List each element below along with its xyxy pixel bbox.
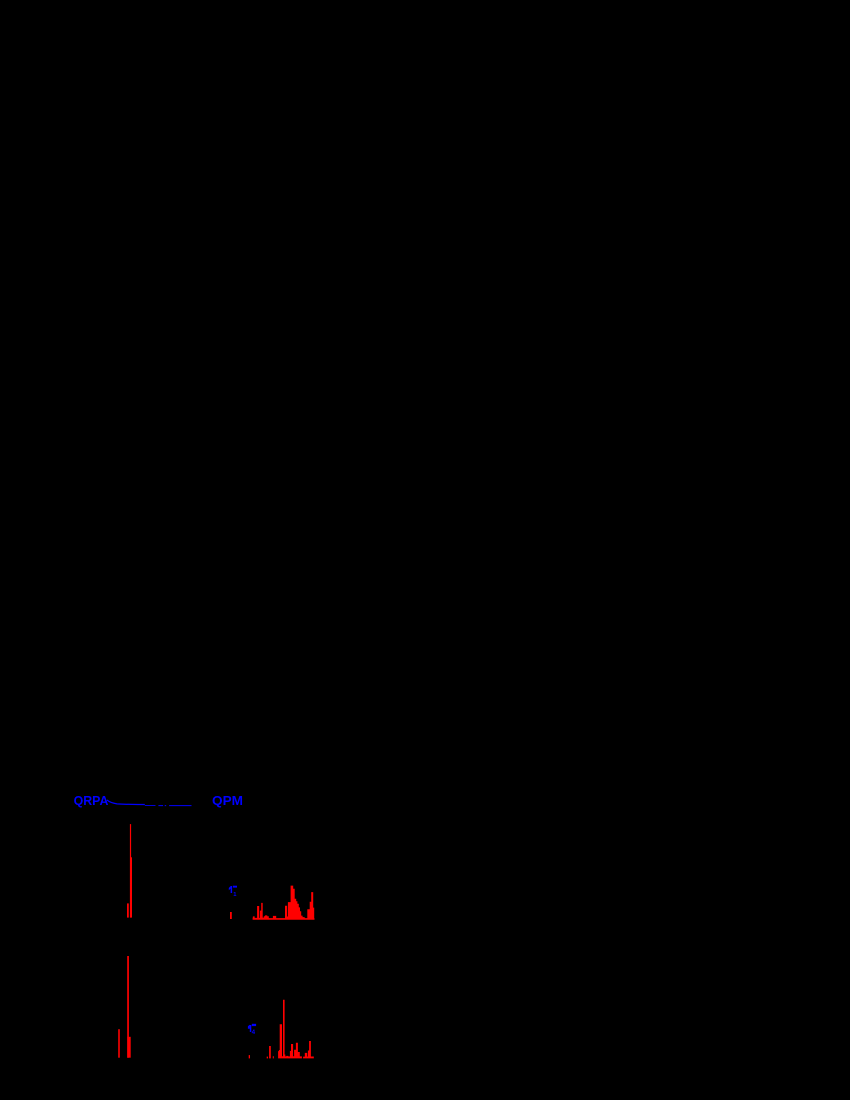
top-right panel 1-1 superscript minus xyxy=(233,886,237,888)
top-left panel bar C (short spike) xyxy=(127,903,129,917)
bottom-left panel bar C (short spike) xyxy=(118,1029,120,1058)
bottom-left panel bar B (wide lower spike) xyxy=(127,1037,130,1058)
top-right panel 1-1 state label "1" stem xyxy=(231,886,233,893)
QRPA curve segment 4 xyxy=(169,805,191,807)
top-right panel QPM histogram xyxy=(253,886,315,920)
QRPA curve segment 2 xyxy=(145,805,156,807)
bottom-right panel isolated 1-4 bar xyxy=(249,1055,250,1058)
svg-text:1: 1 xyxy=(233,892,237,898)
bottom-left panel bar A (tall spike) xyxy=(127,956,129,1058)
bottom-right panel small state bar 2 xyxy=(273,1056,274,1058)
top-right panel 1-1 state label "1" flag xyxy=(229,886,231,890)
top-left panel bar B (wider lower spike) xyxy=(130,857,132,917)
svg-text:QPM: QPM xyxy=(212,793,243,808)
bottom-right panel 1-4 state label "1" stem xyxy=(250,1025,252,1032)
bottom-right panel 1-4 state label "1" flag xyxy=(248,1025,250,1029)
bottom-right panel QPM histogram left cluster xyxy=(278,1000,302,1059)
bottom-right panel QPM histogram right cluster xyxy=(303,1041,314,1058)
bottom-right panel small state bar 1 xyxy=(267,1057,268,1059)
svg-text:QRPA: QRPA xyxy=(74,793,109,808)
bottom-right panel 1-4 superscript minus xyxy=(252,1024,256,1026)
QRPA curve segment 1 xyxy=(107,800,145,805)
top-left panel bar A (tall thin spike) xyxy=(130,824,131,918)
svg-text:4: 4 xyxy=(252,1029,256,1036)
QRPA curve segment 3 (dashes) xyxy=(158,805,166,807)
bottom-right panel medium state bar xyxy=(269,1046,271,1058)
top-right panel isolated 1-1 bar xyxy=(230,912,232,919)
